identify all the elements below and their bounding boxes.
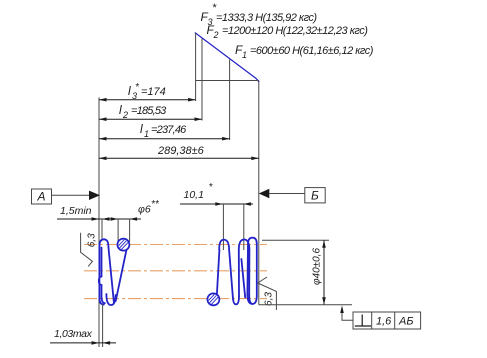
datum A leader and triangle	[51, 191, 100, 200]
wire section circle left	[117, 239, 129, 251]
svg-text:1: 1	[242, 50, 247, 60]
svg-text:φ40±0,6: φ40±0,6	[312, 248, 323, 285]
label phi40	[312, 248, 323, 285]
dimension l1	[99, 137, 230, 141]
bottom end face line	[259, 304, 352, 306]
extension line phi40 top	[262, 239, 329, 241]
svg-text:=185,53: =185,53	[131, 105, 167, 117]
svg-text:=237,46: =237,46	[151, 124, 187, 136]
svg-text:=600±60 Н(61,16±6,12 кгс): =600±60 Н(61,16±6,12 кгс)	[250, 45, 374, 57]
svg-text:2: 2	[122, 110, 128, 120]
svg-text:1,03max: 1,03max	[54, 328, 93, 340]
tolerance datums	[398, 316, 414, 328]
extension lines 10,1	[223, 204, 243, 250]
svg-text:АБ: АБ	[398, 316, 414, 328]
roughness label left	[87, 233, 98, 247]
svg-text:1: 1	[144, 129, 149, 139]
tolerance frame	[353, 312, 421, 329]
spring right group	[217, 238, 257, 305]
datum B letter	[311, 189, 319, 203]
svg-text:=1200±120 Н(122,32±12,23 кгс): =1200±120 Н(122,32±12,23 кгс)	[222, 25, 368, 37]
svg-text:=174: =174	[141, 86, 166, 98]
label 1,5min	[60, 205, 92, 217]
label F2	[207, 23, 369, 40]
svg-text:l: l	[119, 103, 122, 117]
dropper F1/l1	[229, 60, 231, 141]
dimension 10,1	[180, 202, 253, 206]
svg-text:1,6: 1,6	[376, 316, 392, 328]
dimension 1,03max	[50, 341, 116, 345]
svg-text:6,3: 6,3	[87, 233, 98, 247]
label F3	[201, 2, 318, 27]
label 1,03max	[54, 328, 93, 340]
dropper F2/l2	[201, 39, 203, 121]
svg-text:1,5min: 1,5min	[60, 205, 92, 217]
dimension 289,38±6	[99, 157, 259, 161]
dimension l3	[99, 98, 196, 102]
spring left group	[99, 239, 127, 305]
datum A box	[32, 189, 52, 204]
svg-text:6,3: 6,3	[264, 292, 275, 306]
perpendicularity symbol	[355, 315, 371, 327]
svg-text:2: 2	[213, 30, 219, 40]
svg-text:10,1: 10,1	[184, 189, 204, 201]
extension line 1,03max	[102, 304, 104, 347]
datum B box	[305, 188, 325, 203]
centerline middle	[84, 270, 267, 272]
svg-text:l: l	[140, 122, 143, 136]
svg-text:Б: Б	[311, 189, 319, 203]
centerline bottom	[84, 298, 267, 300]
force diagram base line	[196, 80, 259, 82]
svg-text:=1333,3 Н(135,92 кгс): =1333,3 Н(135,92 кгс)	[216, 12, 317, 24]
svg-text:**: **	[151, 199, 160, 210]
dimension 1,5min and phi6 line	[57, 217, 141, 221]
force diagram diagonal	[195, 33, 259, 83]
svg-text:А: А	[37, 190, 46, 204]
wire section circle right	[207, 293, 219, 305]
roughness label right	[264, 292, 275, 306]
right reference line	[258, 81, 260, 305]
label phi6	[138, 199, 160, 216]
extension lines phi6	[118, 219, 130, 242]
svg-text:l: l	[128, 84, 131, 98]
datum B leader and triangle	[259, 189, 305, 198]
svg-text:φ6: φ6	[138, 204, 151, 216]
dropper F3/l3	[195, 33, 197, 101]
dimension phi40	[322, 240, 326, 304]
tolerance frame leader	[340, 306, 353, 321]
extension line 1,5min	[101, 219, 103, 240]
datum A letter	[37, 190, 46, 204]
dimension l2	[99, 117, 202, 121]
label F1	[235, 43, 374, 60]
centerline top	[84, 244, 267, 246]
tolerance value	[376, 316, 392, 328]
roughness mark left	[81, 233, 93, 267]
label 10,1	[184, 182, 214, 201]
roughness mark right	[258, 277, 277, 310]
svg-text:289,38±6: 289,38±6	[157, 145, 205, 157]
left reference line	[98, 97, 100, 347]
